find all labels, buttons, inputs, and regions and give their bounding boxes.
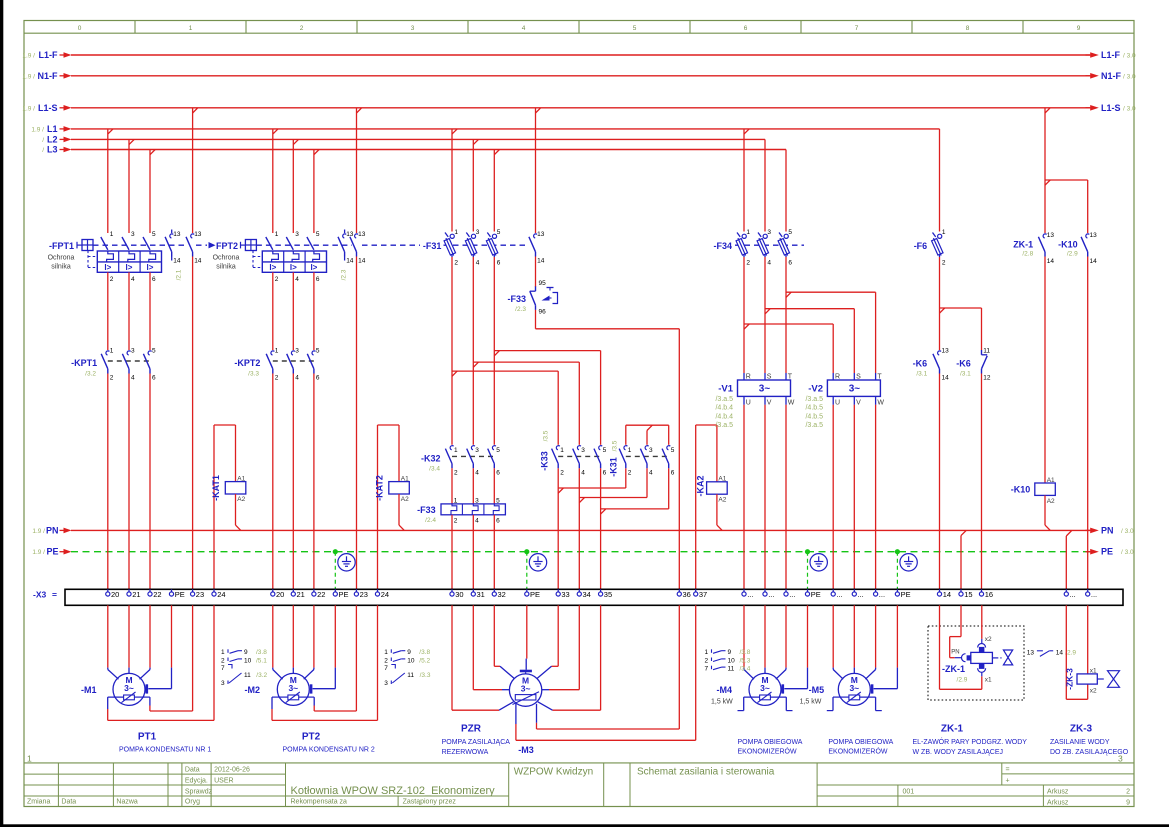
svg-text:POMPA ZASILAJĄCA: POMPA ZASILAJĄCA xyxy=(442,739,511,746)
terminal X3:32 at x494 xyxy=(492,589,506,599)
svg-text:10: 10 xyxy=(728,657,736,664)
svg-text:24: 24 xyxy=(381,590,389,599)
svg-text:1: 1 xyxy=(628,447,632,454)
svg-text:I>: I> xyxy=(290,263,297,272)
svg-text:1: 1 xyxy=(454,447,458,454)
wire V2 outputs to terminals xyxy=(833,405,875,590)
svg-text:U: U xyxy=(746,400,751,407)
svg-text:11: 11 xyxy=(407,672,414,679)
svg-text:Edycja.: Edycja. xyxy=(185,777,208,784)
svg-text:4: 4 xyxy=(295,276,299,283)
wire L1 drop to FPT1 pole 1 xyxy=(107,129,109,233)
wire KPT2 outputs to terminals 20 21 22 xyxy=(273,374,314,590)
terminal X3:PE at x171 xyxy=(169,589,184,599)
svg-text:35: 35 xyxy=(604,590,612,599)
svg-text:-X3: -X3 xyxy=(33,590,47,600)
svg-text:PZR: PZR xyxy=(461,724,482,735)
svg-text:FPT2: FPT2 xyxy=(216,241,238,251)
wire terminal 37 to KA2 coil xyxy=(696,425,717,589)
svg-text:-KA2: -KA2 xyxy=(696,475,706,496)
svg-text:2: 2 xyxy=(454,259,458,266)
svg-text:1: 1 xyxy=(275,348,279,355)
svg-text:-K10: -K10 xyxy=(1058,239,1078,249)
terminal X3:... at x854 xyxy=(852,589,864,599)
earth symbol group 4 xyxy=(810,554,827,571)
svg-text:14: 14 xyxy=(942,375,950,382)
wire FPT1 outputs to KPT1 xyxy=(108,272,150,350)
terminal X3:22 at x313 xyxy=(312,589,326,599)
wire F31 aux to F33 contact xyxy=(535,257,537,287)
label ZK-3 description xyxy=(1050,724,1129,756)
svg-text:/: / xyxy=(42,137,44,144)
svg-text:/3.1: /3.1 xyxy=(916,371,927,378)
svg-text:32: 32 xyxy=(498,590,506,599)
wire PN tap to terminal 15 xyxy=(961,530,966,589)
svg-text:A1: A1 xyxy=(1047,477,1055,484)
svg-text:2: 2 xyxy=(746,259,750,266)
svg-text:L3: L3 xyxy=(47,145,58,155)
bus L2 xyxy=(42,134,765,144)
svg-text:2: 2 xyxy=(942,259,946,266)
PE tap node group 3 xyxy=(524,549,529,589)
title block grid xyxy=(24,763,1134,807)
svg-text:I>: I> xyxy=(310,263,317,272)
svg-text:...: ... xyxy=(858,590,864,599)
svg-text:3: 3 xyxy=(649,447,653,454)
terminal X3:PE at x807 xyxy=(805,589,820,599)
label PT1 xyxy=(119,732,211,754)
svg-text:x1: x1 xyxy=(985,676,992,683)
title block date fields xyxy=(185,766,250,795)
svg-text:16: 16 xyxy=(985,590,993,599)
terminal X3:34 at x579 xyxy=(577,589,591,599)
svg-text:14: 14 xyxy=(194,258,202,265)
wire L1 drop to FPT2 pole 1 xyxy=(272,129,274,233)
svg-text:T: T xyxy=(788,374,793,381)
svg-text:EKONOMIZERÓW: EKONOMIZERÓW xyxy=(828,746,888,755)
svg-text:/3.5: /3.5 xyxy=(612,440,619,451)
svg-text:3: 3 xyxy=(411,25,415,32)
wire L1-S drop to FPT2 aux contact xyxy=(356,108,358,233)
svg-text:4: 4 xyxy=(475,469,479,476)
svg-text:Kotłownia WPOW SRZ-102_Ekonomi: Kotłownia WPOW SRZ-102_Ekonomizery xyxy=(291,785,496,797)
svg-text:-F34: -F34 xyxy=(713,241,732,251)
svg-text:11: 11 xyxy=(244,672,251,679)
svg-text:7: 7 xyxy=(855,25,859,32)
svg-text:3~: 3~ xyxy=(759,383,771,394)
svg-text:A1: A1 xyxy=(401,475,409,482)
solenoid valve ZK-3 xyxy=(1064,667,1119,694)
svg-text:/ 3.0: / 3.0 xyxy=(1123,73,1136,80)
wire terminal 16 to ZK-1 x2 xyxy=(981,605,983,643)
wire L3 drop to FPT2 pole 5 xyxy=(313,150,315,234)
svg-text:2: 2 xyxy=(560,469,564,476)
svg-text:4: 4 xyxy=(522,25,526,32)
svg-text:-V2: -V2 xyxy=(808,384,823,395)
svg-text:1: 1 xyxy=(221,649,225,656)
relay coil KA2 xyxy=(696,475,728,503)
svg-text:/ 3.0: / 3.0 xyxy=(1123,105,1136,112)
svg-text:...: ... xyxy=(836,590,842,599)
svg-text:PT1: PT1 xyxy=(138,732,157,743)
motor M4 xyxy=(711,673,781,705)
wire K33 pole3 output to terminal 34 and K31 pole3 xyxy=(579,468,647,589)
svg-text:A2: A2 xyxy=(401,496,409,503)
svg-text:ZK-1: ZK-1 xyxy=(941,724,964,735)
svg-text:REZERWOWA: REZERWOWA xyxy=(442,749,489,756)
terminal X3:23 at x192 xyxy=(191,589,205,599)
bus N1-F xyxy=(22,71,1136,81)
terminal X3:PE at x335 xyxy=(333,589,348,599)
M1 thermistor leads to terminals 23 24 xyxy=(108,605,214,720)
svg-text:9: 9 xyxy=(244,649,248,656)
svg-text:-ZK-1: -ZK-1 xyxy=(942,664,965,674)
svg-text:6: 6 xyxy=(603,469,607,476)
terminal X3:24 at x377 xyxy=(375,589,389,599)
svg-text:10: 10 xyxy=(407,657,415,664)
relay contact K10 13-14 xyxy=(1058,232,1097,265)
svg-text:-FPT1: -FPT1 xyxy=(49,241,74,251)
svg-text:-F31: -F31 xyxy=(423,241,442,251)
svg-text:0: 0 xyxy=(78,25,82,32)
svg-text:x2: x2 xyxy=(985,636,992,643)
svg-text:/3.4: /3.4 xyxy=(740,666,751,673)
svg-text:ZK-3: ZK-3 xyxy=(1070,724,1093,735)
svg-text:PE: PE xyxy=(530,590,540,599)
wire L3 drop to F34 pole 5 xyxy=(785,150,787,232)
svg-text:6: 6 xyxy=(744,25,748,32)
svg-text:-M4: -M4 xyxy=(717,685,733,695)
contactor contacts KPT1 xyxy=(71,348,156,382)
svg-text:6: 6 xyxy=(152,375,156,382)
svg-text:W ZB. WODY ZASILAJĄCEJ: W ZB. WODY ZASILAJĄCEJ xyxy=(913,749,1004,756)
svg-text:/3.a.5: /3.a.5 xyxy=(805,396,823,403)
svg-text:6: 6 xyxy=(152,276,156,283)
svg-text:3~: 3~ xyxy=(760,683,770,693)
svg-text:L1: L1 xyxy=(47,124,58,134)
terminal X3:21 at x129 xyxy=(127,589,141,599)
wire branch to K10 contact xyxy=(1045,180,1088,233)
svg-text:3~: 3~ xyxy=(124,683,134,693)
svg-text:/3.8: /3.8 xyxy=(740,649,751,656)
svg-text:A2: A2 xyxy=(1047,498,1055,505)
bus L1-F xyxy=(22,50,1136,60)
svg-text:A1: A1 xyxy=(237,475,245,482)
ZK-1 aux contact 13-14 reference xyxy=(1027,650,1077,657)
svg-text:-K10: -K10 xyxy=(1011,485,1031,495)
svg-text:Ochrona: Ochrona xyxy=(213,255,240,262)
svg-text:2: 2 xyxy=(110,276,114,283)
label PZR xyxy=(442,724,511,756)
svg-text:14: 14 xyxy=(346,258,354,265)
svg-text:...: ... xyxy=(879,590,885,599)
motor M1 xyxy=(81,673,145,705)
wire L1-S drop to ZK-1 contact xyxy=(1044,108,1046,233)
motor circuit breaker FPT2 xyxy=(196,231,352,283)
svg-text:PE: PE xyxy=(811,590,821,599)
svg-text:/3.2: /3.2 xyxy=(85,371,96,378)
wire terminals 33 34 35 to motor M3 right side xyxy=(537,605,600,710)
svg-text:3~: 3~ xyxy=(849,383,861,394)
M4 thermistor aux contact references xyxy=(704,649,750,672)
wire KPT1 outputs to terminals 20 21 22 xyxy=(108,374,150,590)
svg-text:7: 7 xyxy=(384,665,388,672)
bus L1-S xyxy=(22,103,1136,113)
svg-text:/3.a.5: /3.a.5 xyxy=(715,422,733,429)
svg-text:=: = xyxy=(1006,766,1010,773)
terminal X3:31 at x473 xyxy=(471,589,485,599)
svg-text:21: 21 xyxy=(132,590,140,599)
svg-text:PN: PN xyxy=(951,650,959,656)
svg-text:A2: A2 xyxy=(237,496,245,503)
earth symbol group 2 xyxy=(338,554,355,571)
svg-text:-K6: -K6 xyxy=(913,359,928,369)
valve limit contact ZK-1 13-14 xyxy=(1013,232,1054,265)
svg-text:PE: PE xyxy=(46,547,58,557)
frequency converter V2 xyxy=(805,373,884,429)
svg-text:EL-ZAWÓR PARY PODGRZ. WODY: EL-ZAWÓR PARY PODGRZ. WODY xyxy=(913,737,1028,746)
svg-text:POMPA KONDENSATU NR 1: POMPA KONDENSATU NR 1 xyxy=(119,747,211,754)
svg-text:95: 95 xyxy=(539,280,547,287)
svg-text:/3.8: /3.8 xyxy=(419,649,430,656)
svg-text:PN: PN xyxy=(46,525,59,535)
thermal overload relay F33 xyxy=(417,498,505,525)
svg-text:Data: Data xyxy=(61,799,76,806)
terminal X3:23 at x356 xyxy=(354,589,368,599)
wire F34 outputs to V1 with branches to V2 xyxy=(744,257,876,373)
svg-text:L1-S: L1-S xyxy=(1101,103,1121,113)
svg-text:10: 10 xyxy=(244,657,252,664)
svg-text:13: 13 xyxy=(942,348,950,355)
svg-text:4: 4 xyxy=(581,469,585,476)
svg-text:5: 5 xyxy=(316,348,320,355)
svg-text:5: 5 xyxy=(497,229,501,236)
motor circuit breaker FPT1 xyxy=(48,231,188,283)
svg-text:1,5 kW: 1,5 kW xyxy=(800,699,822,706)
svg-text:2: 2 xyxy=(221,657,225,664)
svg-text:31: 31 xyxy=(477,590,485,599)
svg-text:L1-S: L1-S xyxy=(38,103,58,113)
svg-text:5: 5 xyxy=(788,229,792,236)
svg-text:/3.a.5: /3.a.5 xyxy=(715,396,733,403)
svg-text:Oryg: Oryg xyxy=(185,799,200,806)
contactor contacts K33 xyxy=(540,430,607,476)
svg-text:8: 8 xyxy=(966,25,970,32)
page edge black strips xyxy=(0,0,3,827)
terminal X3:... at x833 xyxy=(831,589,843,599)
wire K32 outputs to F33 thermal overload xyxy=(452,468,494,504)
svg-text:/3.8: /3.8 xyxy=(256,649,267,656)
contactor contacts K31 xyxy=(609,440,675,477)
PE tap node group 2 xyxy=(333,549,338,589)
svg-text:6: 6 xyxy=(316,276,320,283)
svg-text:3~: 3~ xyxy=(849,683,859,693)
svg-text:PT2: PT2 xyxy=(302,732,321,743)
svg-text:1.9 /: 1.9 / xyxy=(22,53,35,60)
terminal X3:36 at x679 xyxy=(677,589,691,599)
motor M5 xyxy=(800,673,871,705)
svg-text:1: 1 xyxy=(110,348,114,355)
fuse switch F34 xyxy=(713,229,804,266)
wire V1 outputs to terminals xyxy=(744,405,786,590)
svg-text:Data: Data xyxy=(185,766,200,773)
svg-text:14: 14 xyxy=(1090,258,1098,265)
svg-text:21: 21 xyxy=(297,590,305,599)
svg-text:4: 4 xyxy=(295,375,299,382)
svg-text:1: 1 xyxy=(189,25,193,32)
svg-text:-F33: -F33 xyxy=(417,505,436,515)
svg-text:3: 3 xyxy=(475,498,479,505)
bridge wire K31 pole tops xyxy=(626,425,669,445)
title block project name xyxy=(291,785,496,806)
terminal X3:PE at x897 xyxy=(895,589,910,599)
svg-text:x1: x1 xyxy=(1090,667,1097,674)
svg-text:L1-F: L1-F xyxy=(39,50,59,60)
relay coil K10 xyxy=(1011,477,1056,505)
terminal X3:PE at x526 xyxy=(525,589,540,599)
label ZK-1 description xyxy=(913,724,1028,756)
svg-text:S: S xyxy=(767,374,772,381)
PE tap node group 5 xyxy=(895,549,900,589)
svg-text:11: 11 xyxy=(728,666,735,673)
svg-text:Zmiana: Zmiana xyxy=(27,799,50,806)
svg-text:1: 1 xyxy=(560,447,564,454)
svg-text:5: 5 xyxy=(496,498,500,505)
PE tap node group 4 xyxy=(805,549,810,589)
svg-text:15: 15 xyxy=(964,590,972,599)
svg-text:2: 2 xyxy=(628,469,632,476)
svg-text:T: T xyxy=(877,374,882,381)
svg-text:POMPA OBIEGOWA: POMPA OBIEGOWA xyxy=(738,739,803,746)
svg-text:-M3: -M3 xyxy=(518,745,534,755)
wire terminals to motor M2 leads xyxy=(273,605,336,679)
wire K6 to terminal 14 xyxy=(939,374,941,590)
wire L2 drop to F31 pole 3 xyxy=(472,139,474,231)
svg-text:Rekompensata za: Rekompensata za xyxy=(291,799,348,806)
svg-text:001: 001 xyxy=(903,788,915,795)
svg-text:14: 14 xyxy=(1047,258,1055,265)
svg-text:13: 13 xyxy=(1090,232,1098,239)
svg-text:Schemat zasilania i sterowania: Schemat zasilania i sterowania xyxy=(637,767,775,778)
M3 PE connection from top xyxy=(520,605,532,674)
wire L2 drop to FPT1 pole 3 xyxy=(128,139,130,233)
svg-text:/4.b.5: /4.b.5 xyxy=(805,413,823,420)
svg-text:20: 20 xyxy=(111,590,119,599)
svg-text:ZASILANIE WODY: ZASILANIE WODY xyxy=(1050,739,1110,746)
frequency converter V1 xyxy=(715,373,794,429)
svg-text:...: ... xyxy=(1091,590,1097,599)
svg-text:5: 5 xyxy=(316,231,320,238)
motor M2 xyxy=(245,673,310,705)
svg-text:9: 9 xyxy=(407,649,411,656)
wire L2 drop to FPT2 pole 3 xyxy=(292,139,294,233)
label POMPA OBIEGOWA EKONOMIZEROW M5 xyxy=(828,739,893,755)
svg-text:14: 14 xyxy=(173,258,181,265)
svg-text:1,5 kW: 1,5 kW xyxy=(711,699,733,706)
svg-text:5: 5 xyxy=(152,231,156,238)
svg-text:14: 14 xyxy=(943,590,951,599)
svg-text:14: 14 xyxy=(358,258,366,265)
svg-text:7: 7 xyxy=(221,665,225,672)
wire terminal 24 group1 to KAT1 coil xyxy=(214,425,236,589)
bus L3 xyxy=(42,145,786,155)
svg-text:...: ... xyxy=(789,590,795,599)
svg-text:-F6: -F6 xyxy=(914,241,928,251)
svg-text:/ 3.0: / 3.0 xyxy=(1121,528,1134,535)
svg-text:6: 6 xyxy=(496,469,500,476)
svg-text:...: ... xyxy=(747,590,753,599)
wire FPT2 outputs to KPT2 xyxy=(273,272,314,350)
svg-text:I>: I> xyxy=(147,263,154,272)
wire L2 drop to F34 pole 3 xyxy=(764,139,766,231)
svg-text:/2.3: /2.3 xyxy=(340,269,347,280)
M4 PE connection xyxy=(783,668,808,694)
svg-text:3: 3 xyxy=(131,348,135,355)
svg-text:34: 34 xyxy=(583,590,591,599)
svg-text:13: 13 xyxy=(194,231,202,238)
svg-text:2: 2 xyxy=(384,657,388,664)
svg-text:POMPA KONDENSATU NR 2: POMPA KONDENSATU NR 2 xyxy=(283,747,375,754)
wire KA2 A2 to PN xyxy=(717,494,722,530)
svg-text:1: 1 xyxy=(704,649,708,656)
svg-text:S: S xyxy=(856,374,861,381)
wire F31 output 6 to K32 with branch to K33 pole 5 xyxy=(494,257,600,445)
wire FPT1 aux to terminal 23 group1 xyxy=(192,257,194,590)
svg-text:N1-F: N1-F xyxy=(38,71,59,81)
wire K33 pole5 output to terminal 35 and K31 pole5 xyxy=(601,468,669,589)
M3 thermistor leads to terminals 36 37 xyxy=(516,605,696,740)
svg-text:W: W xyxy=(877,400,884,407)
terminal X3:33 at x558 xyxy=(556,589,570,599)
svg-text:13: 13 xyxy=(537,231,545,238)
terminal X3:24 at x214 xyxy=(212,589,226,599)
svg-text:-F33: -F33 xyxy=(507,294,526,304)
wire L1-S drop to F31 aux contact xyxy=(535,108,537,233)
svg-text:/2.8: /2.8 xyxy=(1022,250,1033,257)
svg-text:5: 5 xyxy=(603,447,607,454)
svg-text:/3.1: /3.1 xyxy=(960,371,971,378)
wire F31 output 4 to K32 with branch to K33 pole 3 xyxy=(473,257,579,445)
wire L3 drop to F31 pole 5 xyxy=(493,150,495,232)
wire terminal to ZK-3 x1 xyxy=(1087,605,1089,674)
earth symbol group 3 xyxy=(529,554,546,571)
svg-text:1: 1 xyxy=(454,229,458,236)
svg-text:+: + xyxy=(1006,777,1010,784)
terminal X3:... at x786 xyxy=(784,589,796,599)
svg-text:2: 2 xyxy=(704,657,708,664)
wire terminal 15 to ZK-1 PN port xyxy=(950,605,962,657)
svg-text:A2: A2 xyxy=(718,496,726,503)
svg-text:2: 2 xyxy=(300,25,304,32)
contactor contacts KPT2 xyxy=(234,348,320,382)
wire KAT2 A2 to PN xyxy=(399,494,404,530)
svg-text:ZK-1: ZK-1 xyxy=(1013,239,1033,249)
svg-text:3: 3 xyxy=(295,348,299,355)
svg-text:2: 2 xyxy=(1126,788,1130,795)
svg-text:/2.4: /2.4 xyxy=(425,517,436,524)
thermistor relay coil KAT2 xyxy=(375,475,410,503)
svg-text:Nazwa: Nazwa xyxy=(116,799,138,806)
svg-text:-M1: -M1 xyxy=(81,685,97,695)
thermistor relay coil KAT1 xyxy=(211,475,246,503)
FPT2 aux contact 13-14 in L1-S xyxy=(350,231,366,265)
svg-text:13: 13 xyxy=(1047,232,1055,239)
ZK-1 dotted enclosure xyxy=(928,626,1024,700)
terminal X3:30 at x452 xyxy=(450,589,464,599)
svg-text:USER: USER xyxy=(214,777,233,784)
svg-text:/ 3.0: / 3.0 xyxy=(1123,53,1136,60)
terminal X3:16 at x981 xyxy=(979,589,993,599)
